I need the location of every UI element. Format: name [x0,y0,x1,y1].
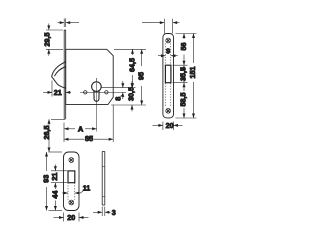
dim 8 [120,81,124,99]
svg-text:29,5: 29,5 [42,33,51,47]
dim 93 [45,152,62,211]
dim 64,5 [131,49,134,87]
hook bolt [52,62,66,88]
faceplate edge strip (side view) [64,30,66,119]
svg-text:3: 3 [112,208,116,217]
strike slot [68,171,75,183]
lock case body [66,49,114,104]
svg-text:9: 9 [166,47,170,56]
dim 21 (hook projection) [43,81,71,97]
svg-text:95: 95 [137,72,146,80]
euro cylinder profile U1 [92,82,102,102]
faceplate screw top [166,38,171,43]
faceplate hook slot [165,65,171,83]
svg-text:58,5: 58,5 [179,93,188,107]
dim 58,5 [183,83,186,118]
svg-text:11: 11 [83,183,91,192]
dim 151 [192,34,195,119]
strike screw top [69,158,74,163]
svg-text:20: 20 [166,121,174,130]
dim 95 [140,49,143,105]
strike side view bar [102,152,105,206]
dim 85 [64,105,113,142]
svg-text:26,5: 26,5 [42,126,51,140]
dim 9 [158,54,178,57]
faceplate screw bottom [166,108,171,113]
faceplate front view plate [163,34,174,118]
dim 56 [183,34,186,66]
faceplate right extension lines [173,34,197,119]
case screw hole right [105,91,108,94]
dim 3 (strike thickness) [93,207,111,217]
dim A (backset) [64,83,97,142]
strike plate front view [64,152,80,211]
svg-text:151: 151 [188,67,197,79]
svg-text:85: 85 [85,134,93,143]
strike screw bottom [69,200,74,205]
dim 20 (faceplate width) [153,122,183,131]
svg-text:8: 8 [113,97,122,101]
dim 26,5 [48,119,66,152]
svg-text:64,5: 64,5 [127,58,136,72]
dim 44 [54,189,57,211]
dim faceplate top (9 slot ref) [142,19,180,34]
cylinder vertical centerline [95,78,97,82]
dim 29,5 [46,24,63,56]
svg-text:21: 21 [54,88,62,97]
dim 30,5 [131,81,134,111]
svg-text:35,5: 35,5 [179,67,188,81]
dim 11 with leader [62,191,84,195]
svg-text:20: 20 [67,213,75,222]
hidden case lines (dashed) [165,44,171,107]
strike slot hidden lines [68,183,75,200]
case screw hole left [84,91,87,94]
dim 20 (strike width) [54,213,89,222]
dim faceplate thickness (top) [58,19,80,28]
screw centerline [80,91,126,93]
svg-text:30,5: 30,5 [127,87,136,101]
svg-text:21: 21 [50,173,59,181]
svg-text:A: A [78,124,84,133]
svg-text:56: 56 [179,43,188,51]
svg-text:44: 44 [50,191,59,199]
dim 35,5 [183,65,186,83]
dim 21 (strike slot) [51,165,67,189]
right side extension lines of case [102,49,147,105]
